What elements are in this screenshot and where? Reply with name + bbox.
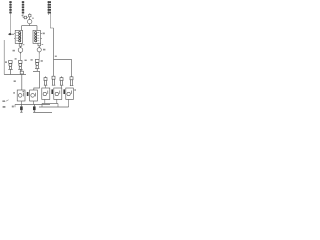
terminal T1 [8,33,14,35]
label 5a [5,61,7,63]
label 48 [25,60,27,61]
label 51 [14,80,16,82]
wire bus bottom left [15,104,50,106]
contactor P3 [60,76,63,85]
label 49 [31,59,33,60]
wire bus right upper [42,103,58,105]
label 4b [41,60,43,62]
wire bus join step [57,104,59,108]
resistor chain R2 [22,1,24,13]
wire long right vertical [53,28,55,60]
relay box K1 [14,30,23,43]
meter M1 [28,17,32,26]
wire bus connector left [41,104,43,108]
wire M4 stub [44,99,46,103]
label 59 [12,106,14,108]
contact C1 [19,44,24,47]
wire bus left mid [4,74,26,76]
lamp G1 [18,46,23,54]
breaker B3 [35,59,39,71]
wire mid right segment [33,71,40,90]
label m6 [74,89,76,91]
capacitor C4 [51,89,53,94]
wire B down [38,54,40,60]
wire box D stub [32,101,34,105]
wire M6 stub [68,99,70,107]
wire cross right [54,60,72,77]
wire through R1 [10,1,12,34]
label 50 [2,100,5,102]
label s1 [22,15,24,16]
relay box K2 [33,30,42,43]
label m [32,18,34,19]
wire drop to box C [21,75,23,90]
label 46 [13,50,15,52]
resistor Rh2 [33,105,36,113]
breaker B2 [18,60,22,71]
wire bus bottom [34,111,53,113]
wire box C stub [20,101,22,105]
motor box M2 [17,90,25,101]
motor box M3 [30,90,38,101]
contactor P2 [52,76,55,85]
wire through R2 [22,1,24,18]
wire through R3 [47,1,49,15]
wire A down [19,54,21,60]
breaker B1 [8,60,12,74]
motor box M6 [66,88,74,99]
resistor chain R1 [9,1,11,13]
label 58 [3,106,6,108]
wire bus left hook [14,105,16,108]
resistor Rh1 [20,105,23,113]
wire leader 50 [6,100,9,102]
wire stub left [21,26,23,31]
switch S1 [23,16,28,19]
wire P2 feed [53,60,55,77]
label m1 [13,92,15,93]
fuse F1 [20,70,23,74]
wire P3 legs to M5 [61,85,63,88]
contactor P4 [70,77,73,86]
wire from R3 down [50,13,53,28]
motor box M4 [42,88,50,99]
wire bus right lower [39,106,69,108]
switch S2 [29,13,31,17]
capacitor Cm [27,92,29,96]
wire stub right [36,26,38,31]
wire P1 legs to M4 [45,85,47,88]
contactor P1 [44,76,47,85]
label 48a [15,58,17,59]
wire left feed down [3,40,5,75]
contact C2 [38,43,43,46]
label m2 [23,91,25,92]
label 4c [55,56,57,57]
wire M5 stub [56,99,58,103]
motor box M5 [54,88,62,99]
wire rail top [22,25,37,27]
capacitor C5 [63,89,65,94]
label 44 [43,33,45,35]
label 47 [43,49,45,51]
resistor chain R3 [48,1,51,13]
lamp G2 [37,46,41,54]
